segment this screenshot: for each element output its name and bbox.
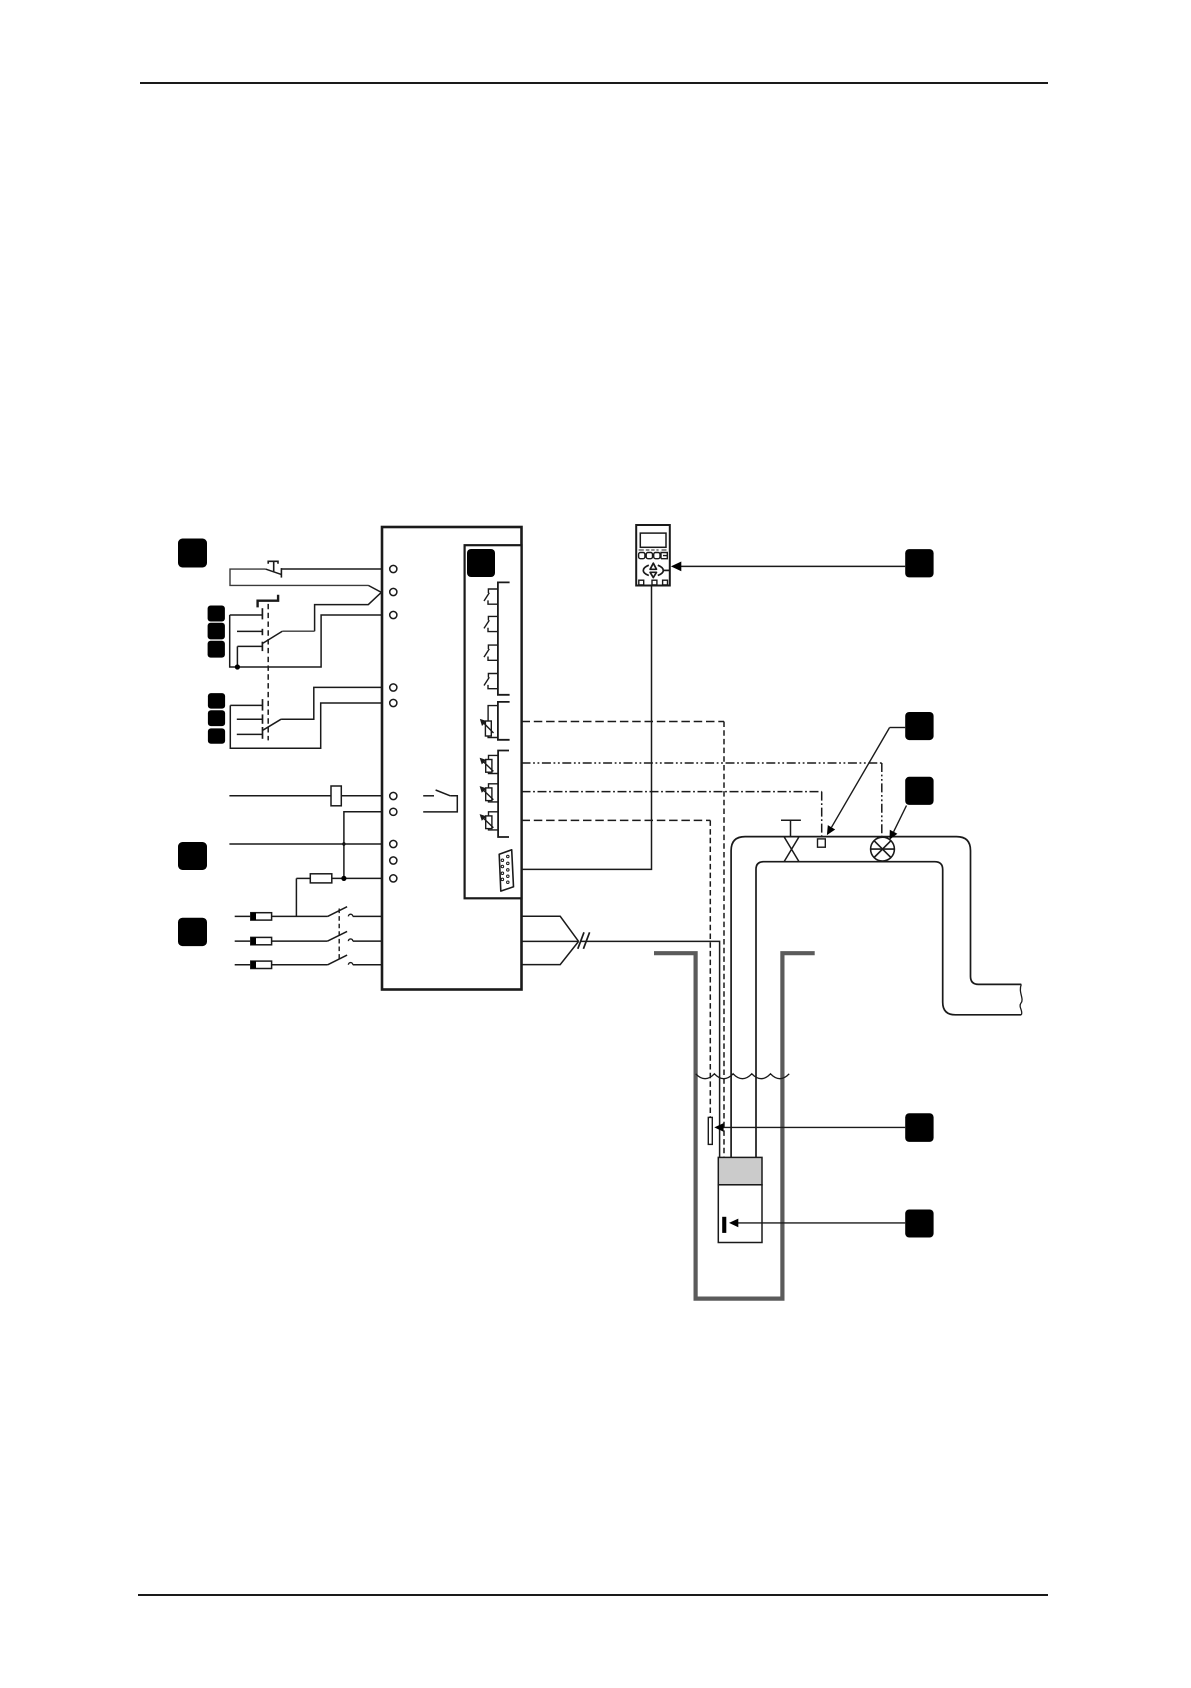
bracket B (thermistor) bbox=[498, 702, 510, 740]
fixed contact bump L3 bbox=[348, 963, 352, 965]
remote arrow pad bbox=[643, 563, 670, 577]
pressure/flow pipe sensor square bbox=[818, 839, 826, 847]
fixed contact bump L1 bbox=[348, 914, 352, 916]
dash-dot-dot line: flow sensor circuit bbox=[522, 762, 882, 764]
flow meter bbox=[871, 837, 895, 861]
water level bbox=[696, 1074, 789, 1079]
label square + arrow for motor sensor bbox=[905, 1210, 933, 1238]
switch mechanical link (dashed) bbox=[338, 909, 340, 960]
control fuse F4 bbox=[310, 874, 332, 883]
dash-dot line: pressure sensor circuit bbox=[522, 791, 822, 793]
dashed line: pump sensor circuit bbox=[522, 721, 725, 723]
wire to terminal 6 bbox=[229, 795, 381, 797]
thermistor (y=755.4) bbox=[481, 755, 498, 773]
remote buttons bbox=[639, 553, 668, 559]
wire: box to remote control bbox=[522, 586, 652, 870]
wire: left loop to pressure switch bbox=[230, 569, 368, 585]
label squares (3) upper level switch bbox=[208, 606, 225, 622]
wire: S2 blade output to terminal 2 merge bbox=[282, 630, 314, 632]
mechanical link (dashed) bbox=[267, 604, 269, 741]
mains fuse L1 bbox=[251, 913, 272, 920]
cable break marks // bbox=[578, 932, 584, 949]
relay output contact bbox=[423, 790, 457, 812]
bracket C (3 thermistors) bbox=[498, 751, 509, 838]
wire to terminal 8 bbox=[229, 843, 381, 845]
S2 blade bbox=[263, 631, 282, 643]
junction dot bbox=[341, 876, 346, 881]
bottom rule bbox=[138, 1594, 1048, 1596]
label squares (3) lower level switch bbox=[208, 693, 225, 709]
wire L1 bbox=[235, 915, 251, 917]
remote label marks row bbox=[639, 549, 667, 551]
wire: S2 common rail to terminal 3 bbox=[230, 615, 381, 667]
dashed line: level sensor circuit bbox=[522, 819, 711, 821]
pressure switch S1 bbox=[266, 561, 282, 577]
S2 contact bars bbox=[261, 608, 263, 619]
mains fuse L3 bbox=[251, 961, 272, 968]
wire: converge pair into terminal 2 bbox=[315, 585, 382, 631]
thermal contact (y=645.1) bbox=[484, 645, 498, 660]
label square lower-left bbox=[178, 918, 207, 946]
well casing left wall bbox=[654, 953, 815, 1298]
label square + arrow for flow meter bbox=[905, 777, 933, 805]
thermistor (y=811.8) bbox=[481, 812, 498, 830]
thermal contact (y=673.5) bbox=[484, 674, 498, 689]
level sensor electrode bbox=[708, 1117, 712, 1144]
junction dot bbox=[235, 664, 240, 669]
bracket A (thermal switches) bbox=[498, 582, 510, 694]
wire: bottom contact drop bbox=[236, 646, 238, 667]
wire L3 bbox=[235, 964, 251, 966]
wire: pressure switch to terminal 1 bbox=[281, 568, 381, 570]
wire: S3 blade output to terminal 4 bbox=[281, 687, 381, 719]
label square for remote + arrow bbox=[905, 549, 933, 577]
level switch S3 (lower) contact bars bbox=[262, 699, 264, 711]
pipe inner line bbox=[756, 862, 1021, 1158]
shut-off valve bbox=[781, 820, 801, 861]
junction dot small bbox=[342, 842, 345, 845]
remote control R100 bbox=[636, 525, 670, 586]
module label square bbox=[467, 549, 495, 577]
thermal contact (y=589.0) bbox=[484, 589, 498, 604]
DB9 connector bbox=[499, 850, 513, 891]
switch blade L3 bbox=[328, 955, 348, 965]
motor cable: three conductors converge bbox=[522, 916, 579, 964]
S3 contact leads bbox=[230, 704, 262, 706]
switch blade L1 bbox=[328, 907, 348, 917]
connector block on wire 6 bbox=[331, 786, 341, 806]
label square + arrow for pipe sensor bbox=[905, 712, 933, 740]
S3 blade bbox=[263, 719, 281, 730]
switch blade L2 bbox=[328, 931, 348, 941]
mains fuse L2 bbox=[251, 937, 272, 944]
thermal contact (y=616.4) bbox=[484, 616, 498, 631]
terminal circles 1-10 bbox=[390, 565, 397, 572]
motor temperature sensor bbox=[722, 1217, 726, 1233]
remote feet bbox=[639, 580, 668, 585]
label square + arrow for level sensor bbox=[905, 1113, 933, 1142]
wire terminal 10 row bbox=[296, 877, 310, 879]
label square mid-left bbox=[178, 842, 207, 870]
pipe outer line bbox=[731, 837, 1021, 1158]
motor protection module box bbox=[465, 545, 522, 898]
S2 contact leads bbox=[230, 614, 263, 616]
wire: fuse tap down to L1 bbox=[295, 878, 297, 916]
level switch S2 (upper) float bracket bbox=[258, 595, 279, 608]
submersible pump unit bbox=[718, 1157, 762, 1184]
fixed contact bump L2 bbox=[348, 939, 352, 941]
label square (callout) top-left bbox=[178, 539, 207, 568]
top rule bbox=[140, 82, 1048, 84]
wire L2 bbox=[235, 940, 251, 942]
wire: S3 common rail to terminal 5 bbox=[230, 703, 381, 748]
thermistor R1 bbox=[481, 706, 498, 738]
motor section bbox=[718, 1185, 762, 1243]
wire: terminal 7 drop rail bbox=[344, 812, 381, 879]
cable run to well bbox=[581, 941, 720, 1157]
pipe break squiggle bbox=[1020, 984, 1022, 1014]
thermistor (y=783.8) bbox=[481, 784, 498, 802]
control unit CU box bbox=[382, 527, 522, 990]
